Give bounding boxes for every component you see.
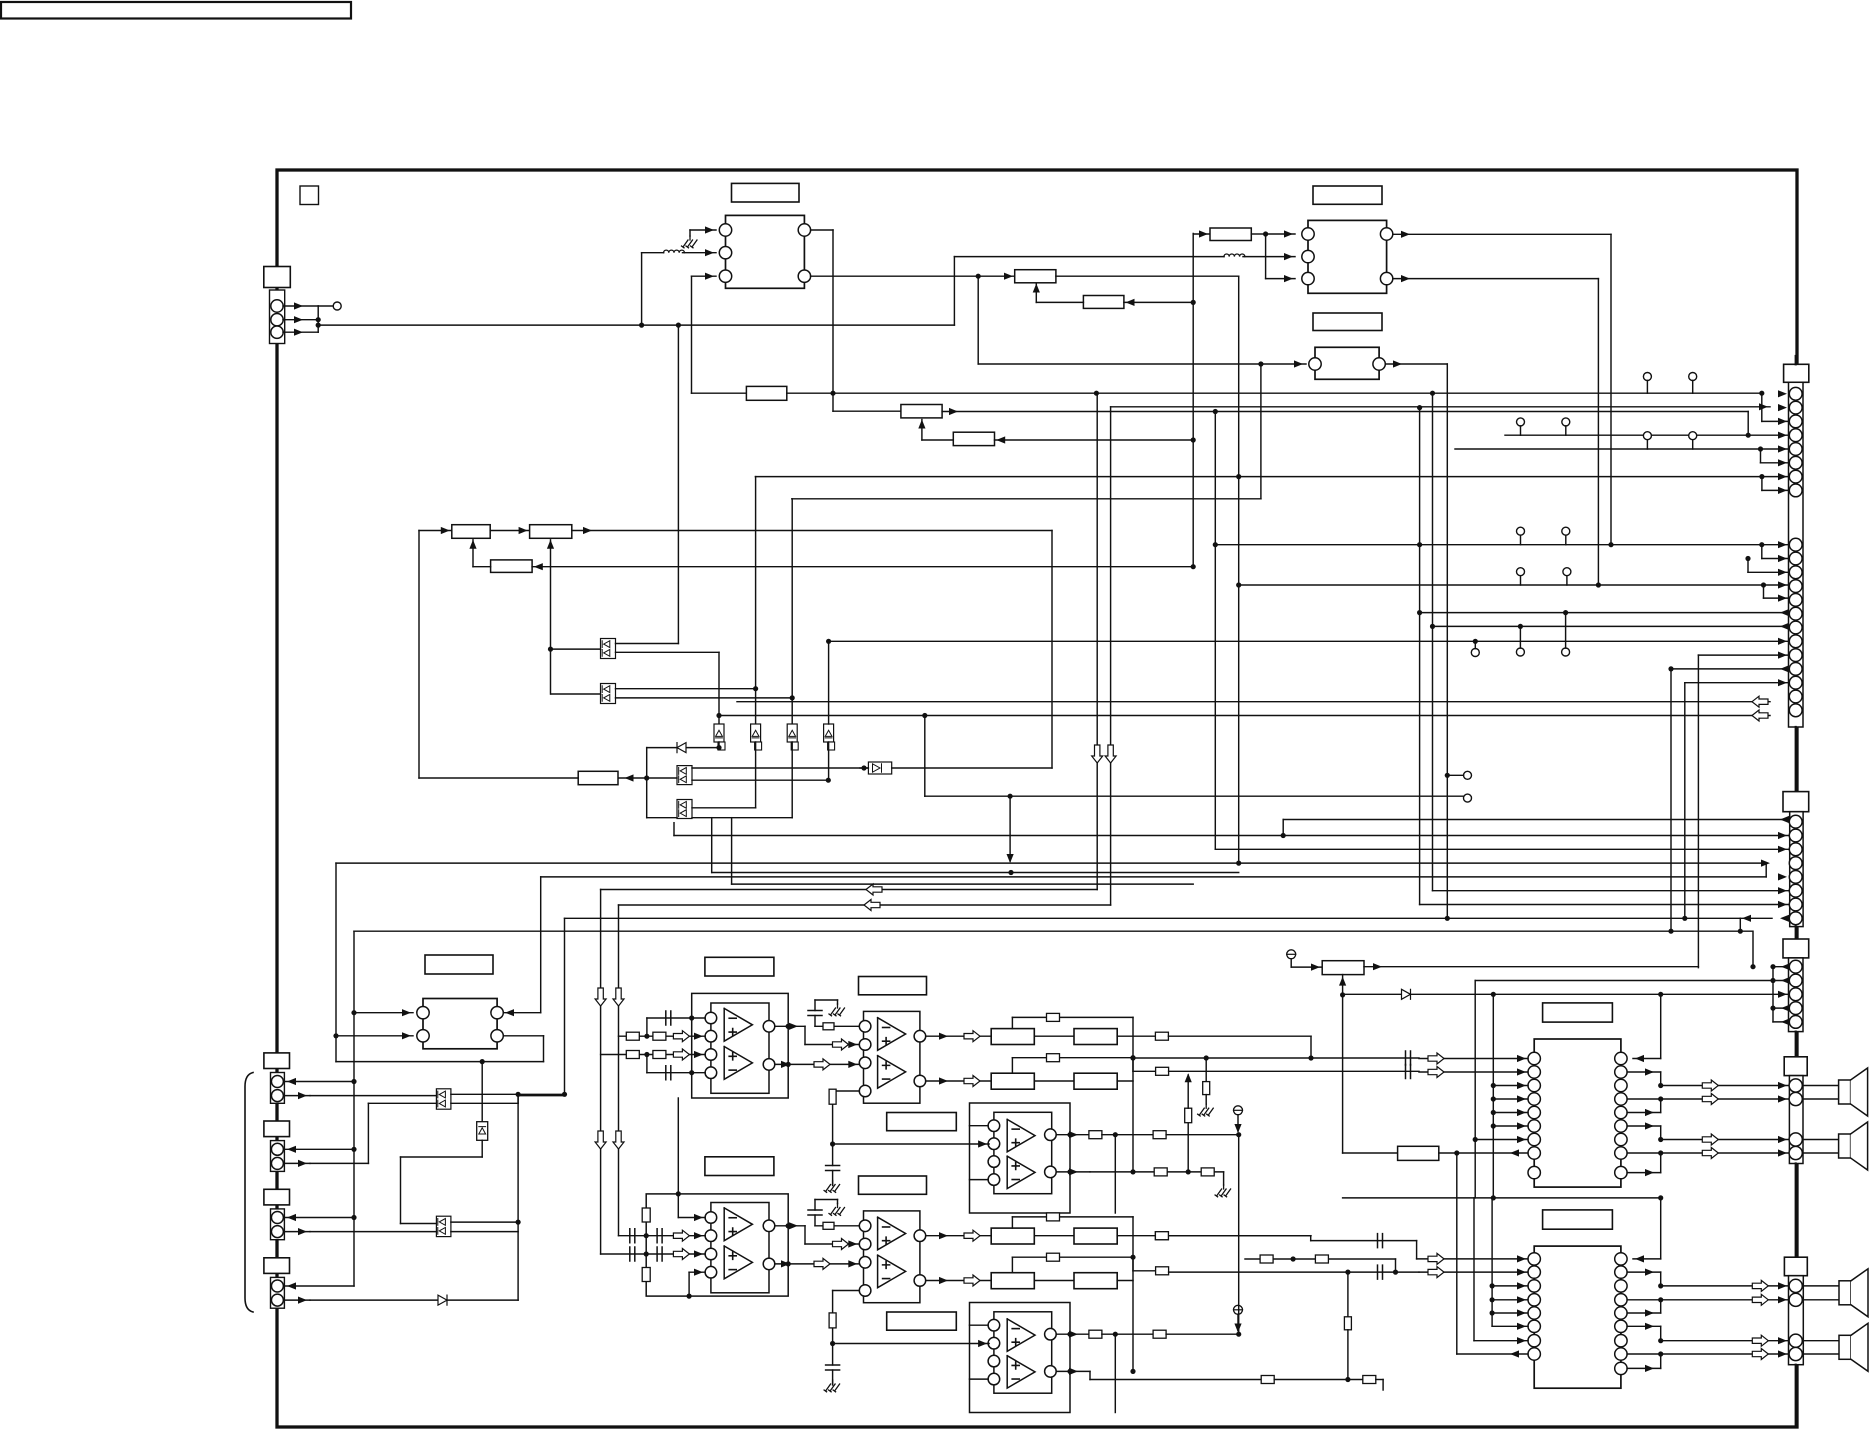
pin12 line bbox=[1239, 584, 1789, 586]
op-amp U2A2 bbox=[724, 1246, 752, 1279]
net line into cluster area bbox=[564, 1095, 566, 1097]
IC6 right pin 3 bbox=[1615, 1280, 1627, 1292]
IC5 bottom net bbox=[1343, 1197, 1661, 1199]
connector CN6 pin 3 bbox=[1789, 1334, 1802, 1347]
IC6 body bbox=[1534, 1246, 1621, 1388]
pin1 test circles bbox=[1643, 373, 1651, 381]
U2B output 2 bbox=[926, 1280, 992, 1282]
IC5 right pin 6 bbox=[1615, 1120, 1627, 1132]
wire CN8 pin2 riser bbox=[310, 1162, 368, 1164]
pin16 test circle bbox=[1471, 649, 1479, 657]
wire CN1 pin3 bbox=[283, 331, 318, 333]
feedback line 2 ch1 bbox=[1011, 1217, 1013, 1228]
op-amp U1C2 bbox=[1007, 1156, 1035, 1188]
diode box DB1 bbox=[714, 724, 724, 742]
connector CN5 pin 3 bbox=[1789, 1133, 1802, 1146]
wire into CN9 pin1 bbox=[284, 1217, 354, 1219]
connector CN8 body bbox=[271, 1141, 285, 1172]
wire ch2 to IC5 pin2 bbox=[1133, 1070, 1156, 1072]
wire ch3 out segment bbox=[1166, 1235, 1311, 1237]
IC6 out steps bbox=[1627, 1271, 1661, 1273]
speaker SP4 bbox=[1803, 1340, 1839, 1342]
connector CN2 pin 20 bbox=[1789, 690, 1802, 703]
bus B6 vertical right to strip3 bbox=[1752, 931, 1754, 967]
IC5 left pin 3 bbox=[1528, 1079, 1540, 1091]
connector CN6 body bbox=[1789, 1276, 1804, 1365]
pin15 loop vertical bbox=[1432, 393, 1434, 891]
pin13 step bbox=[1763, 585, 1765, 598]
wire R8 out down to diode net bbox=[1051, 531, 1053, 769]
U1C pins bbox=[988, 1120, 1000, 1132]
wire U1A out1 to U1B bbox=[775, 1025, 805, 1027]
wire U1B pin4 riser bbox=[833, 1090, 860, 1092]
wire DD5 out bbox=[451, 1093, 565, 1095]
connector CN9 header bbox=[264, 1189, 290, 1205]
op-amp block U1C inner bbox=[994, 1112, 1052, 1193]
diode box DB4 bbox=[824, 724, 834, 742]
cap to ground 2 bbox=[828, 1366, 837, 1370]
IC5 left pin 2 bbox=[1528, 1066, 1540, 1078]
pin19 feed bbox=[1684, 683, 1686, 919]
hollow arrows down audio2 bbox=[595, 1131, 606, 1149]
pin5 arrow bbox=[1778, 873, 1787, 880]
op-amp U2B1 bbox=[878, 1217, 906, 1250]
speaker line RL+ bbox=[1661, 1285, 1789, 1287]
RC to ground ch bbox=[1205, 1058, 1207, 1082]
op-amp block U2C outer bbox=[970, 1303, 1071, 1413]
IC6 left pin 1 bbox=[1528, 1253, 1540, 1265]
IC5 feed vertical left bbox=[1492, 994, 1494, 1198]
IC5 right pin 7 bbox=[1615, 1133, 1627, 1145]
connector CN2 pin 9 bbox=[1789, 538, 1802, 551]
IC6 left pin 3 bbox=[1528, 1280, 1540, 1292]
wire into CN8 pin1 bbox=[284, 1148, 354, 1150]
resistor R12 bbox=[1398, 1146, 1439, 1160]
U1B pins bbox=[859, 1021, 871, 1033]
left bracket bbox=[245, 1073, 253, 1313]
ground G7 bbox=[1215, 1185, 1231, 1197]
connector CN3 pin 2 bbox=[1789, 829, 1802, 842]
diode D5 bbox=[438, 1295, 447, 1305]
label box AMP1 rear bbox=[887, 1113, 957, 1131]
connector CN10 body bbox=[271, 1277, 285, 1308]
connector CN5 pin 1 bbox=[1789, 1079, 1802, 1092]
wire CN1 pin2 bbox=[283, 319, 318, 321]
connector CN2 pin 13 bbox=[1789, 594, 1802, 607]
IC5 left pin 5 bbox=[1528, 1106, 1540, 1118]
wire terminal tap to bus B1 bbox=[1009, 796, 1011, 861]
label box AMP1 input bbox=[705, 957, 774, 976]
IC6 right pin 2 bbox=[1615, 1266, 1627, 1278]
bus B6 y931 bbox=[354, 930, 1752, 932]
IC1 body bbox=[726, 215, 805, 288]
connector CN2 pin 6 bbox=[1789, 456, 1802, 469]
feedback line 2 ch2 bbox=[1011, 1257, 1013, 1273]
connector CN2 header bbox=[1784, 364, 1809, 382]
label box IC3 bbox=[1313, 313, 1382, 331]
IC2 pin in2 bbox=[1302, 250, 1314, 262]
feedback line 1 ch1 bbox=[1011, 1017, 1013, 1028]
connector CN2 pin 11 bbox=[1789, 566, 1802, 579]
wire into IC4 pin2 bbox=[336, 1035, 413, 1037]
connector CN2 pin 21 bbox=[1789, 704, 1802, 717]
connector CN5 header bbox=[1784, 1057, 1807, 1076]
R5 line step to pin4 bbox=[1747, 412, 1749, 436]
connector CN4 stem bbox=[1795, 927, 1797, 939]
wire IC1 out1 down bbox=[811, 229, 833, 231]
wire into IC2 pin1 bbox=[1266, 233, 1295, 235]
wire DD5 line to bus bbox=[518, 1095, 564, 1097]
IC1 pin in2 bbox=[719, 247, 731, 259]
IC5 left pin 9 bbox=[1528, 1166, 1540, 1178]
connector CN5 stem bbox=[1795, 1032, 1797, 1057]
pin2 loop vertical bbox=[1474, 981, 1476, 1198]
U2C pin stubs bbox=[970, 1324, 989, 1326]
bus B2 vertical left bbox=[540, 877, 542, 1013]
net S1 horizontal to left bbox=[601, 889, 1098, 891]
resistor chain 1 ch2 bbox=[991, 1073, 1034, 1089]
connector CN3 pin 5 bbox=[1789, 871, 1802, 884]
IC1 pin out2 bbox=[798, 270, 810, 282]
connector CN4 header bbox=[1783, 939, 1809, 958]
wire IC2 out2 bbox=[1393, 278, 1599, 280]
IC6 pin8 out bbox=[1457, 1353, 1528, 1355]
terminal T3 bbox=[1464, 771, 1472, 779]
net strip pin21 line bbox=[719, 715, 1770, 717]
test point TP2 bbox=[1234, 1106, 1243, 1115]
IC4 pin in2 bbox=[417, 1030, 429, 1042]
IC5 left pin feeds bbox=[1493, 1085, 1528, 1087]
net strip pin20 line bbox=[737, 701, 1770, 703]
speaker line RL- bbox=[1627, 1299, 1789, 1301]
wire L1 to bus bbox=[642, 252, 664, 254]
label box IC6 bbox=[1543, 1210, 1613, 1229]
pin8 step bbox=[1761, 477, 1763, 491]
connector CN2 pin 5 bbox=[1789, 443, 1802, 456]
bus B1 vertical left bbox=[335, 863, 337, 1062]
IC2 pin in1 bbox=[1302, 228, 1314, 240]
wire U2B pin4 riser bbox=[833, 1290, 860, 1292]
wire into IC2 pin3 bbox=[1265, 234, 1267, 279]
wire out of CN7 pin2 bbox=[284, 1095, 310, 1097]
net vertical x518 bbox=[517, 1094, 519, 1300]
connector CN8 header bbox=[264, 1121, 290, 1137]
connector CN2 pin 16 bbox=[1789, 635, 1802, 648]
wire out of CN9 pin2 bbox=[284, 1231, 310, 1233]
RC tap ch4 bbox=[1347, 1272, 1349, 1317]
IC6 left pin feeds bbox=[1492, 1285, 1528, 1287]
IC5 right pin 9 bbox=[1615, 1166, 1627, 1178]
op-amp U1B2 bbox=[878, 1056, 906, 1089]
net y872 bbox=[712, 872, 1239, 874]
wire UC2 out2 jog bbox=[1089, 1371, 1091, 1379]
connector CN5 body bbox=[1789, 1076, 1803, 1164]
op-amp block U2A inner bbox=[711, 1203, 769, 1293]
resistor R3 chain bbox=[1015, 270, 1056, 283]
wire out of CN8 pin2 bbox=[284, 1162, 310, 1164]
dual diode DD1 bbox=[601, 639, 616, 659]
main board outline bbox=[277, 170, 1797, 1427]
pin2 out line bbox=[1475, 980, 1789, 982]
connector CN6 pin 4 bbox=[1789, 1347, 1802, 1360]
resistor R4 feedback bbox=[1083, 296, 1124, 309]
wire IC1 out2 main line bbox=[811, 275, 1015, 277]
input line 1 of U1A bbox=[619, 1035, 706, 1037]
connector CN2 pin 18 bbox=[1789, 663, 1802, 676]
connector CN7 header bbox=[264, 1053, 290, 1069]
connector CN6 stem bottom bbox=[1795, 1365, 1797, 1427]
wire DD2 out top bbox=[616, 688, 756, 690]
UC2 out2 ground line bbox=[1090, 1379, 1261, 1381]
diode box DB2 bbox=[751, 724, 761, 742]
bus riser to IC2 bbox=[953, 257, 955, 326]
connector CN7 pin 1 bbox=[271, 1076, 283, 1088]
wire R11 bias bbox=[1342, 975, 1344, 995]
IC5 pin8 resistor line bbox=[1343, 1152, 1398, 1154]
connector CN9 body bbox=[271, 1209, 285, 1240]
connector CN2 pin 15 bbox=[1789, 621, 1802, 634]
feedback line 1 ch2 bbox=[1011, 1058, 1013, 1074]
hollow arrow down S1 bbox=[1092, 745, 1103, 763]
net y994 line bbox=[1343, 993, 1789, 995]
IC6 left pin 4 bbox=[1528, 1294, 1540, 1306]
IC6 left pin 7 bbox=[1528, 1335, 1540, 1347]
diode box D4 bbox=[481, 1062, 483, 1122]
IC6 left pin 8 bbox=[1528, 1348, 1540, 1360]
connector CN3 pin 8 bbox=[1789, 912, 1802, 925]
connector CN8 pin 1 bbox=[271, 1143, 283, 1155]
IC5 left pin 4 bbox=[1528, 1093, 1540, 1105]
connector CN10 pin 1 bbox=[271, 1280, 283, 1292]
IC4 pin in1 bbox=[417, 1007, 429, 1019]
connector CN8 pin 2 bbox=[271, 1157, 283, 1169]
input line 2 of U1A bbox=[601, 1054, 706, 1056]
wire IC3 out bbox=[1385, 363, 1447, 365]
resistor R1 feedback IC1 bbox=[692, 392, 747, 394]
bus wire left-to-right y325 bbox=[318, 324, 954, 326]
wire into U2C pin2 bbox=[833, 1343, 990, 1345]
label box AMP2 stage2 bbox=[859, 1176, 927, 1194]
connector CN4 pin 4 bbox=[1789, 1002, 1802, 1015]
net y884 bbox=[732, 883, 1194, 885]
test terminal T1 bbox=[333, 302, 341, 310]
connector CN5 pin 2 bbox=[1789, 1092, 1802, 1105]
wire UC out2 to ground chain bbox=[1090, 1171, 1224, 1173]
net S2 vertical to audio in 1 bbox=[618, 905, 620, 1236]
resistor R10 bbox=[618, 777, 647, 779]
resistor R9 feedback bbox=[491, 560, 532, 573]
connector CN7 pin 2 bbox=[271, 1090, 283, 1102]
op-amp block U1C outer bbox=[970, 1103, 1071, 1213]
wire ch4 to IC6 pin2 bbox=[1133, 1270, 1156, 1272]
U2C out2 bbox=[1056, 1370, 1090, 1372]
test point TP1 bbox=[1287, 950, 1296, 959]
connector CN3 pin 6 bbox=[1789, 884, 1802, 897]
pin4 feed U2A bbox=[687, 1294, 692, 1299]
IC5 right pin 1 bbox=[1615, 1052, 1627, 1064]
connector CN6 header bbox=[1784, 1257, 1807, 1276]
wire DD1 out top bbox=[616, 643, 679, 645]
connector CN1 pin 1 bbox=[271, 300, 283, 312]
terminal T2 bbox=[1464, 794, 1472, 802]
op-amp U2C1 bbox=[1007, 1319, 1035, 1351]
pin17 feed bbox=[1697, 655, 1699, 968]
feedback resistor top edge U2A bbox=[642, 1208, 650, 1222]
resistor R8 bbox=[490, 530, 529, 532]
label box IC1 bbox=[732, 183, 800, 202]
wire R11 to strip1 pin17 riser bbox=[1364, 966, 1698, 968]
wire D4 down bbox=[481, 1140, 483, 1157]
pin10 step bbox=[1761, 545, 1763, 559]
wire staircase to DD6 bbox=[400, 1157, 402, 1224]
wire R8 out bbox=[572, 530, 1052, 532]
IC2 pin out2 bbox=[1380, 272, 1392, 284]
link vertical to cluster1 U2A bbox=[677, 1098, 679, 1194]
wire IC3 input branch down bbox=[1260, 364, 1262, 499]
wire ch3 jog to IC6 pin1 bbox=[1168, 1235, 1310, 1237]
wire DD3 top to diode box D2 bbox=[692, 767, 868, 769]
wire U2A out1 to U2B bbox=[775, 1225, 805, 1227]
connector CN3 pin 1 bbox=[1789, 815, 1802, 828]
bus B5 vertical left bbox=[564, 918, 566, 1095]
IC6 right pin 1 bbox=[1615, 1253, 1627, 1265]
diode D3 bbox=[1402, 989, 1411, 999]
speaker line FR- bbox=[1627, 1152, 1789, 1154]
IC3 pin in bbox=[1309, 358, 1321, 370]
cap to ground 1 bbox=[828, 1166, 837, 1170]
op-amp block U2B outer bbox=[864, 1211, 920, 1303]
connector CN1 pin 2 bbox=[271, 314, 283, 326]
U2C feedback wrap bbox=[1114, 1334, 1116, 1412]
IC2 body bbox=[1308, 220, 1387, 293]
connector CN4 pin 5 bbox=[1789, 1016, 1802, 1029]
label box AMP2 input bbox=[705, 1157, 774, 1176]
RC network above U1B bbox=[814, 1000, 816, 1011]
arrows into CN2 pins bbox=[1778, 390, 1787, 397]
wire D1 to R10 junction bbox=[646, 748, 648, 818]
pin5 line bbox=[1455, 448, 1789, 450]
wire into IC4 out1 return bbox=[503, 1012, 540, 1014]
connector CN9 pin 2 bbox=[271, 1226, 283, 1238]
label box AMP1 stage2 bbox=[859, 977, 927, 995]
diode small box D2 bbox=[868, 762, 891, 774]
inductor L2 bbox=[1224, 254, 1245, 257]
wire CN1 pin1 to test terminal bbox=[283, 305, 318, 307]
IC5 left pin 7 bbox=[1528, 1133, 1540, 1145]
dual diode DD3 bbox=[677, 766, 692, 785]
speaker SP2 bbox=[1803, 1139, 1839, 1141]
IC1 pin in3 bbox=[719, 270, 731, 282]
IC5 right pin 4 bbox=[1615, 1093, 1627, 1105]
IC4 pin out1 bbox=[491, 1007, 503, 1019]
connector CN2 body bbox=[1789, 382, 1804, 727]
IC5 left pin 6 bbox=[1528, 1120, 1540, 1132]
dual diode DD2 bbox=[601, 684, 616, 704]
net S1 vertical to audio in 2 bbox=[600, 890, 602, 1255]
net y1259 bbox=[1245, 1258, 1396, 1260]
wire into U1C pin2 bbox=[833, 1143, 990, 1145]
series resistor into U2B pin1 bbox=[815, 1225, 859, 1227]
wire out of CN10 pin2 bbox=[284, 1299, 310, 1301]
op-amp U1B1 bbox=[878, 1018, 906, 1051]
connector CN4 pin 3 bbox=[1789, 988, 1802, 1001]
hollow arrows down audio1 bbox=[595, 988, 606, 1006]
wire CN10 pin2 line bbox=[310, 1299, 518, 1301]
wire into CN7 pin1 bbox=[284, 1081, 354, 1083]
pin3 feed bbox=[1214, 412, 1216, 850]
input line 1 of U2A bbox=[619, 1235, 706, 1237]
connector CN2 pin 10 bbox=[1789, 552, 1802, 565]
net S2 vertical bbox=[1110, 407, 1112, 905]
CN4 pins link vertical bbox=[1772, 967, 1774, 1022]
wire into IC3 bbox=[977, 276, 979, 364]
connector CN2 pin 14 bbox=[1789, 607, 1802, 620]
IC5 pin7 feed bbox=[1475, 1139, 1528, 1141]
wire R5 output bbox=[942, 411, 1748, 413]
pin3 arrow step bbox=[1761, 394, 1763, 422]
riser from UC out2 line bbox=[1187, 1123, 1189, 1172]
wire DD2 out bottom bbox=[616, 697, 793, 699]
wire DD3 bottom bbox=[647, 777, 677, 779]
net strip pin16 line bbox=[829, 640, 1789, 642]
op-amp U1A2 bbox=[724, 1047, 752, 1080]
connector CN6 pin 1 bbox=[1789, 1279, 1802, 1292]
U1C feedback wrap bbox=[1114, 1135, 1116, 1213]
wire DD1 out bottom bbox=[616, 651, 720, 653]
op-amp U2A1 bbox=[724, 1208, 752, 1241]
IC5 right pin 5 bbox=[1615, 1106, 1627, 1118]
pin7 arrow bbox=[1778, 901, 1787, 908]
bus B6 vertical left bbox=[353, 931, 355, 1286]
connector CN3 pin 7 bbox=[1789, 898, 1802, 911]
pin15 out line bbox=[1433, 625, 1790, 627]
dual diode DD6 bbox=[436, 1216, 451, 1236]
IC6 left pin 6 bbox=[1528, 1320, 1540, 1332]
IC4 body bbox=[423, 999, 497, 1049]
wire DB1 bottom to diode D1 bbox=[718, 742, 720, 748]
diode box DB3 bbox=[787, 724, 797, 742]
pin6 step bbox=[1760, 449, 1762, 463]
wire cluster link vertical bbox=[1238, 1135, 1240, 1335]
speaker line RR- bbox=[1627, 1353, 1789, 1355]
pin6 arrow bbox=[1778, 887, 1787, 894]
connector CN4 pin 1 bbox=[1789, 960, 1802, 973]
U1C out2 bbox=[1056, 1171, 1090, 1173]
wire to terminal circles bbox=[924, 716, 926, 797]
net S2 horizontal to left bbox=[619, 904, 1111, 906]
IC2 pin out1 bbox=[1380, 228, 1392, 240]
U1B output 2 bbox=[926, 1080, 992, 1082]
pin14 out line bbox=[1420, 612, 1789, 614]
connector CN1 pin 3 bbox=[271, 326, 283, 338]
pin8 arrow bbox=[1780, 915, 1789, 922]
pin14 loop vertical bbox=[1419, 408, 1421, 905]
wire U1A out2 to U1B bbox=[775, 1063, 860, 1065]
wire IC4 out2 bbox=[503, 1035, 543, 1037]
IC5 left pin 8 bbox=[1528, 1147, 1540, 1159]
IC6 feed vertical bbox=[1491, 1198, 1493, 1326]
connector CN2 pin 8 bbox=[1789, 484, 1802, 497]
IC4 pin out2 bbox=[491, 1030, 503, 1042]
label box IC2 bbox=[1313, 186, 1382, 204]
pin15 test circle bbox=[1516, 648, 1524, 656]
wire into CN10 pin1 bbox=[284, 1285, 354, 1287]
IC5 body bbox=[1534, 1039, 1621, 1187]
IC5 right pin 8 bbox=[1615, 1147, 1627, 1159]
pin4 feed vertical bbox=[1238, 276, 1240, 863]
label box AMP2 rear bbox=[887, 1312, 957, 1330]
wire IC4 output loop bbox=[543, 1036, 545, 1062]
